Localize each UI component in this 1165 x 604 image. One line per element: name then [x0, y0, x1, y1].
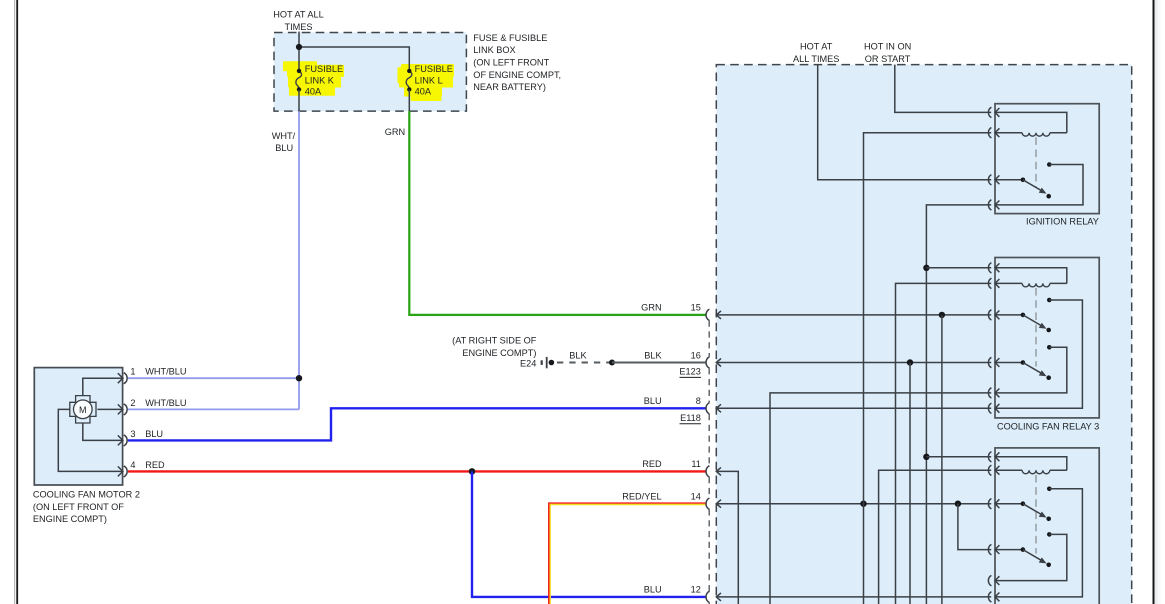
svg-text:40A: 40A [415, 86, 432, 96]
svg-text:LINK L: LINK L [415, 75, 443, 85]
svg-text:16: 16 [691, 350, 701, 360]
svg-text:E24: E24 [520, 359, 536, 369]
svg-text:BLU: BLU [644, 585, 662, 595]
cooling fan relay 3 no.1 switch contact [995, 314, 1023, 316]
wire BLU from RED junction to pin 12 [472, 471, 706, 597]
bottom relay coil feed loop [995, 457, 1067, 471]
wire pin 14 RED/YEL to bottom relay pin 3 [716, 503, 991, 505]
svg-text:LINK BOX: LINK BOX [473, 45, 515, 55]
ignition relay armature dashed link [1035, 137, 1037, 187]
wire WHT/BLU motor pin 2 [128, 408, 299, 410]
bottom relay contact 1 output wire [995, 489, 1082, 597]
cooling fan relay 3 contact 2 output wire [995, 347, 1067, 393]
wire cooling fan relay 3 pin 5 down [770, 393, 991, 604]
node RED/YEL to ignition coil branch [860, 501, 866, 507]
fusible link K 40A [296, 71, 302, 90]
fuse & fusible link box [274, 33, 466, 112]
node ignition feed to cooling fan relay 3 pin 1 [923, 265, 929, 271]
wire RED/YEL to pin 14 [549, 503, 706, 604]
bottom relay pin connector [988, 592, 991, 602]
svg-text:(ON LEFT FRONT OF: (ON LEFT FRONT OF [33, 502, 124, 512]
bottom relay armature dashed link [1035, 475, 1037, 554]
highlight fusible link L [398, 64, 455, 101]
wire link L to box edge [408, 89, 410, 111]
motor pin connector 4 [124, 466, 127, 477]
svg-text:WHT/BLU: WHT/BLU [145, 398, 186, 408]
wire link K to box edge [298, 89, 300, 111]
cooling fan relay 3 pin connector [988, 403, 991, 413]
svg-text:3: 3 [130, 429, 135, 439]
ignition relay pin connector [988, 200, 991, 210]
svg-text:ENGINE COMPT): ENGINE COMPT) [462, 348, 536, 358]
wire pin 11 RED down [716, 471, 738, 604]
node WHT/BLU junction [296, 375, 302, 381]
wire pin 15 GRN to cooling fan relay 3 pin 3 [716, 314, 991, 316]
wire HOT AT ALL TIMES feed to ignition relay pin 3 [818, 65, 992, 180]
cooling fan relay 3 coil feed loop [995, 268, 1067, 284]
svg-text:GRN: GRN [641, 303, 661, 313]
svg-text:RED/YEL: RED/YEL [622, 492, 661, 502]
wire BLK solid to pin 16 [612, 362, 706, 364]
connector pin 16 BLK at junction box edge [706, 357, 709, 368]
svg-text:8: 8 [696, 396, 701, 406]
svg-text:1: 1 [130, 367, 135, 377]
cooling fan relay 3 armature dashed link [1035, 288, 1037, 367]
wire cooling fan relay 3 pin 2 down [896, 283, 992, 604]
node BLK splice [609, 360, 615, 366]
svg-text:ALL TIMES: ALL TIMES [793, 54, 839, 64]
wire jumper to fusible link L [299, 47, 409, 71]
svg-text:OF ENGINE COMPT,: OF ENGINE COMPT, [473, 70, 561, 80]
motor internal wire pin 2 [97, 408, 122, 410]
svg-text:14: 14 [691, 492, 701, 502]
motor internal wire pin 4 [58, 409, 122, 471]
node fuse box feed junction [296, 44, 302, 50]
bottom relay pin connector [988, 452, 991, 462]
connector strip dashed line [708, 321, 710, 357]
bottom relay coil [995, 469, 1022, 471]
cooling fan relay 3 coil [995, 282, 1022, 284]
svg-text:COOLING FAN RELAY 3: COOLING FAN RELAY 3 [997, 421, 1099, 431]
svg-text:HOT AT ALL: HOT AT ALL [273, 10, 324, 20]
svg-text:RED: RED [642, 459, 662, 469]
ignition relay contact output wire [995, 165, 1083, 205]
motor internal wire pin 3 [83, 422, 123, 440]
svg-text:2: 2 [130, 398, 135, 408]
svg-text:BLU: BLU [275, 143, 293, 153]
connector pin 11 RED at junction box edge [706, 466, 709, 477]
motor M symbol [70, 396, 96, 423]
svg-text:GRN: GRN [385, 127, 405, 137]
svg-text:LINK K: LINK K [305, 75, 335, 85]
wire pin 12 BLU to bottom relay pin 6 [716, 596, 991, 598]
wire BLU motor pin 3 to pin 8 [128, 408, 706, 440]
ignition relay coil feed loop [995, 112, 1067, 132]
wire to cooling fan relay 3 pin 1 [926, 267, 991, 269]
svg-text:TIMES: TIMES [284, 22, 312, 32]
svg-text:FUSE & FUSIBLE: FUSE & FUSIBLE [473, 33, 547, 43]
wire WHT/BLU motor pin 1 [128, 377, 299, 379]
svg-text:NEAR BATTERY): NEAR BATTERY) [473, 82, 546, 92]
wire branch to bottom relay pin 4 [958, 504, 991, 550]
svg-text:(AT RIGHT SIDE OF: (AT RIGHT SIDE OF [452, 336, 537, 346]
wire pin 8 BLU to cooling fan relay 3 pin 6 [716, 407, 991, 409]
cooling fan relay 3 pin connector [988, 310, 991, 320]
ignition relay pin connector [988, 175, 991, 185]
svg-text:BLK: BLK [644, 350, 662, 360]
relay/junction box (dashed, right) [716, 65, 1131, 604]
motor pin connector 1 [124, 373, 127, 384]
cooling fan relay 3 pin connector [988, 263, 991, 273]
svg-text:E123: E123 [679, 367, 700, 377]
page border left [14, 0, 16, 604]
wire WHT/BLU vertical from fuse box [298, 111, 300, 409]
svg-text:FUSIBLE: FUSIBLE [305, 64, 343, 74]
cooling fan relay 3 contact 1 output wire [995, 300, 1082, 408]
node RED/YEL to bottom relay pin 4 branch [955, 501, 961, 507]
svg-text:HOT IN ON: HOT IN ON [864, 42, 911, 52]
svg-text:BLK: BLK [569, 351, 587, 361]
svg-text:IGNITION RELAY: IGNITION RELAY [1026, 216, 1099, 226]
svg-text:15: 15 [691, 303, 701, 313]
bottom relay no.1 switch contact [995, 503, 1023, 505]
wire pin 16 BLK to cooling fan relay 3 pin 4 [716, 362, 991, 364]
cooling fan relay 3 no.2 switch contact [995, 362, 1023, 364]
svg-text:COOLING FAN MOTOR 2: COOLING FAN MOTOR 2 [33, 490, 140, 500]
node GRN branch [939, 312, 945, 318]
wire GRN branch down [941, 315, 943, 604]
node feed to bottom relay pin 1 [923, 454, 929, 460]
svg-text:HOT AT: HOT AT [800, 42, 833, 52]
cooling fan motor 2 box [34, 368, 122, 485]
ignition relay U1 box [995, 104, 1099, 214]
wire battery feed into fuse box [298, 32, 300, 71]
motor pin connector 3 [124, 435, 127, 446]
ignition relay coil [995, 132, 1022, 134]
wire BLK branch down [909, 363, 911, 604]
svg-text:M: M [79, 405, 87, 415]
wire ignition relay pin 4 down [926, 205, 991, 604]
bottom relay box [995, 448, 1099, 604]
ground connector E24 symbol [541, 360, 543, 365]
connector pin 15 GRN at junction box edge [706, 309, 709, 320]
bottom relay contact 2 output wire [995, 534, 1067, 580]
svg-text:BLU: BLU [145, 429, 163, 439]
svg-text:OR START: OR START [865, 54, 911, 64]
bottom relay no.2 switch contact [995, 549, 1023, 551]
bottom relay pin connector [988, 544, 991, 554]
bottom relay pin connector [988, 465, 991, 475]
connector pin 8 BLU at junction box edge [706, 403, 709, 414]
wire ignition relay pin 2 coil down [864, 133, 992, 604]
bottom relay pin connector [988, 499, 991, 509]
svg-text:(ON LEFT FRONT: (ON LEFT FRONT [473, 58, 549, 68]
node BLK branch [907, 359, 913, 365]
highlight fusible link K [283, 61, 344, 95]
svg-text:ENGINE COMPT): ENGINE COMPT) [33, 514, 107, 524]
wire to bottom relay pin 1 [926, 456, 991, 458]
bottom relay pin connector [988, 575, 991, 585]
connector pin 14 RED/YEL at junction box edge [706, 498, 709, 509]
wire RED motor pin 4 to pin 11 [128, 470, 706, 472]
svg-text:FUSIBLE: FUSIBLE [415, 64, 453, 74]
cooling fan relay 3 pin connector [988, 278, 991, 288]
wire bottom relay pin 2 down [879, 470, 992, 604]
wire BLK dashed (existing circuit) [557, 362, 612, 364]
svg-text:RED: RED [145, 460, 165, 470]
cooling fan relay 3 pin connector [988, 357, 991, 367]
cooling fan relay 3 pin connector [988, 388, 991, 398]
wire HOT IN ON OR START feed to ignition relay pin 1 [895, 65, 991, 113]
ignition relay pin connector [988, 107, 991, 117]
svg-text:40A: 40A [305, 86, 322, 96]
svg-text:BLU: BLU [644, 396, 662, 406]
connector pin 12 BLU at junction box edge [706, 591, 709, 602]
node RED junction [469, 468, 476, 475]
motor pin connector 2 [124, 404, 127, 415]
cooling fan relay 3 box [995, 258, 1099, 418]
svg-text:WHT/: WHT/ [272, 131, 296, 141]
fusible link L 40A [406, 71, 412, 90]
ignition relay pin connector [988, 128, 991, 138]
ignition relay switch contact [995, 179, 1023, 181]
svg-text:12: 12 [691, 585, 701, 595]
svg-text:E118: E118 [680, 413, 701, 423]
svg-text:WHT/BLU: WHT/BLU [145, 367, 186, 377]
svg-text:4: 4 [130, 460, 135, 470]
wire GRN from fusible link L to pin 15 [409, 111, 706, 315]
svg-text:11: 11 [691, 459, 701, 469]
motor internal wire pin 1 [83, 378, 123, 396]
